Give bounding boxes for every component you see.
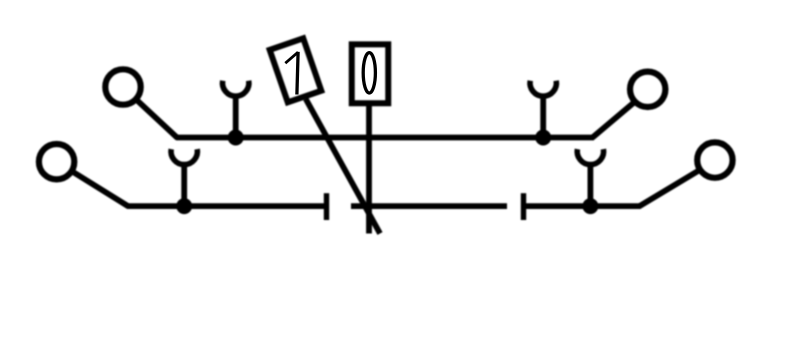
test socket TS3 stem (181, 165, 187, 206)
terminal circle X2 (top right clamp) (630, 72, 665, 107)
terminal circle X1 (top left clamp) (105, 69, 140, 104)
indicator box 0 (upright position flag) (352, 44, 389, 103)
bottom bus wire left segment (127, 203, 327, 209)
wire bottom-left circle to bottom bus bend (74, 172, 128, 206)
indicator stem wire from box 0 (366, 103, 372, 234)
test socket TS2 stem (540, 97, 546, 138)
top bus wire (176, 135, 594, 141)
test socket TS1 stem (233, 97, 239, 138)
test socket TS2 arc (top right) (530, 81, 556, 96)
bottom bus wire right segment (524, 203, 641, 209)
wire top bus to top-right circle (593, 103, 634, 138)
disconnect knife middle wire segment (351, 203, 507, 209)
junction dot on bottom bus (right) (582, 198, 598, 214)
junction dot on top bus (left) (228, 130, 244, 146)
disconnect contact bar (left) (324, 193, 329, 220)
switch lever wire from box 1 (306, 99, 380, 234)
junction dot on top bus (right) (535, 130, 551, 146)
digit 1 glyph (285, 52, 298, 63)
test socket TS1 arc (top left) (223, 81, 249, 96)
wire bottom bus to bottom-right circle (640, 171, 699, 206)
terminal circle X3 (bottom left clamp) (39, 144, 74, 179)
test socket TS4 arc (bottom right) (577, 149, 603, 164)
digit 0 glyph (363, 53, 375, 93)
indicator box 1 (tilted position flag) (270, 38, 322, 102)
disconnect contact bar (right) (521, 193, 526, 220)
terminal circle X4 (bottom right clamp) (697, 142, 732, 177)
wire top-left circle to top bus bend (138, 101, 178, 138)
test socket TS4 stem (588, 165, 594, 206)
test socket TS3 arc (bottom left) (171, 149, 197, 164)
junction dot on bottom bus (left) (176, 198, 192, 214)
